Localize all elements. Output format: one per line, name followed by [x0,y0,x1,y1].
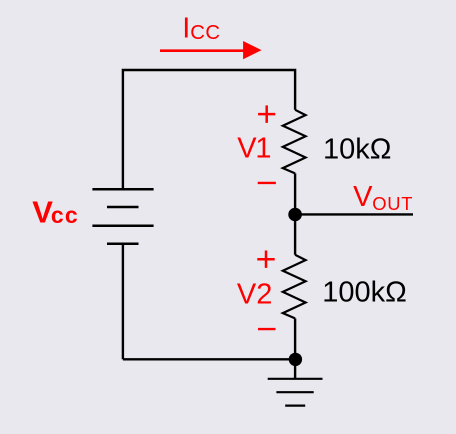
node ground junction dot [289,353,302,366]
svg-text:10kΩ: 10kΩ [323,133,391,165]
svg-text:100kΩ: 100kΩ [322,277,407,309]
current arrow I_CC [160,49,246,52]
svg-text:CC: CC [190,22,221,44]
wire: left bottom vertical [122,244,124,360]
wire: bottom horizontal [123,358,296,360]
label plus sign of V2 [257,251,274,268]
svg-text:cc: cc [51,202,79,228]
svg-text:OUT: OUT [372,193,413,214]
wire: between R1 and R2 [294,173,296,254]
svg-text:V2: V2 [237,279,272,311]
label minus sign of V1 [258,182,276,184]
battery V_CC plate 4 (short) [107,242,139,245]
node V_OUT junction dot [288,208,302,222]
wire: R2 bottom to ground [294,318,296,378]
svg-text:V1: V1 [237,133,270,165]
label plus sign of V1 [258,105,275,123]
battery V_CC plate 3 (long) [92,224,153,227]
resistor R2 (100k) zigzag [283,255,306,319]
wire: V_OUT horizontal [295,213,413,215]
battery V_CC plate 2 (short) [107,206,139,209]
label minus sign of V2 [258,328,276,330]
wire: left vertical + top + right vertical [123,70,295,189]
resistor R1 (10k) zigzag [283,110,306,174]
ground [268,379,323,406]
svg-text:V: V [353,181,373,213]
svg-text:I: I [182,12,190,44]
battery V_CC plate 1 (long) [92,188,153,191]
